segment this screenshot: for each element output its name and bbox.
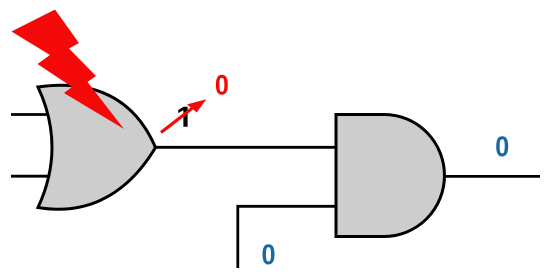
wire OR input A — [11, 113, 55, 116]
AND gate U2 — [336, 115, 444, 237]
label: AND input value 0 (blue) — [262, 244, 274, 264]
label: faulty value 0 (red) — [216, 75, 228, 95]
wire OR input B — [11, 175, 55, 178]
lightning bolt fault symbol — [12, 10, 125, 130]
fault transition arrow (red) — [161, 108, 192, 132]
wire AND input 2 (node N2) — [238, 206, 337, 268]
wire OR output to AND input 1 (node N1) — [154, 146, 337, 149]
label: AND output value 0 (blue) — [496, 136, 508, 156]
wire AND output — [443, 175, 540, 178]
label: original value 1 (black) — [178, 107, 187, 127]
OR gate U1 — [38, 85, 156, 209]
